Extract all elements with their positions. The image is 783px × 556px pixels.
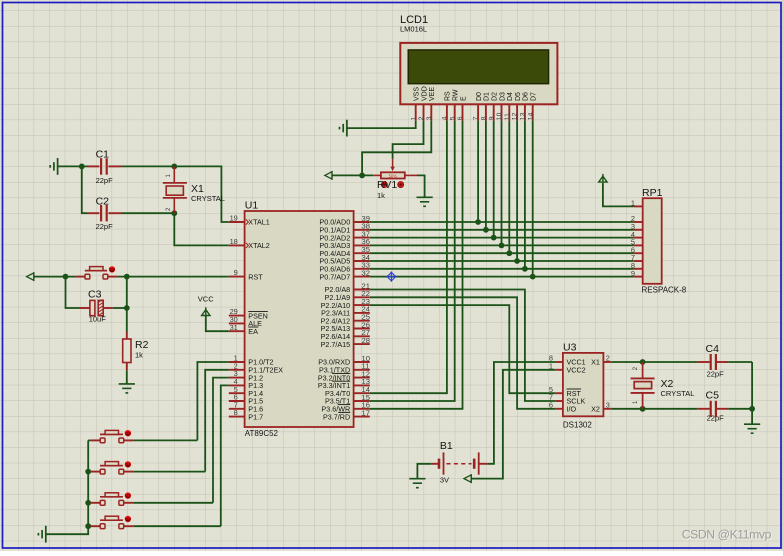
svg-text:D0: D0 [476, 92, 483, 101]
svg-text:RW: RW [453, 89, 460, 101]
svg-text:22pF: 22pF [707, 414, 725, 423]
svg-text:6: 6 [457, 116, 464, 120]
svg-text:C3: C3 [88, 289, 102, 301]
svg-text:14: 14 [527, 112, 534, 120]
svg-text:D6: D6 [523, 92, 530, 101]
svg-text:P0.7/AD7: P0.7/AD7 [319, 272, 350, 281]
svg-text:5: 5 [449, 116, 456, 120]
svg-text:VSS: VSS [414, 87, 421, 101]
svg-text:CSDN @K11mvp: CSDN @K11mvp [682, 528, 772, 542]
svg-text:VEE: VEE [429, 87, 436, 101]
svg-text:U1: U1 [245, 200, 259, 212]
svg-text:C4: C4 [706, 343, 720, 355]
svg-text:D1: D1 [484, 92, 491, 101]
svg-text:12: 12 [512, 112, 519, 120]
svg-text:2: 2 [418, 116, 425, 120]
svg-text:2: 2 [606, 354, 610, 363]
svg-text:11: 11 [504, 113, 511, 120]
svg-text:AT89C52: AT89C52 [245, 429, 279, 438]
svg-text:EA: EA [248, 327, 258, 336]
svg-text:R2: R2 [135, 339, 149, 351]
svg-text:D7: D7 [531, 92, 538, 101]
svg-text:13: 13 [520, 112, 527, 120]
svg-text:1: 1 [549, 361, 553, 370]
svg-text:VDD: VDD [421, 86, 428, 101]
svg-text:6: 6 [549, 400, 553, 409]
svg-text:D4: D4 [507, 92, 514, 101]
svg-text:18: 18 [230, 237, 238, 246]
svg-text:28: 28 [362, 336, 370, 345]
svg-text:22pF: 22pF [96, 176, 114, 185]
svg-text:X2: X2 [591, 405, 600, 414]
svg-text:X1: X1 [591, 358, 600, 367]
svg-text:P1.7: P1.7 [248, 412, 263, 421]
svg-text:RV1: RV1 [377, 179, 397, 191]
svg-text:8: 8 [481, 116, 488, 120]
svg-text:VCC2: VCC2 [567, 366, 586, 375]
svg-text:3: 3 [606, 400, 610, 409]
svg-text:31: 31 [230, 323, 238, 332]
svg-text:E: E [460, 96, 467, 101]
svg-text:7: 7 [473, 116, 480, 120]
svg-text:P3.7/RD: P3.7/RD [323, 412, 350, 421]
svg-text:3: 3 [426, 116, 433, 120]
svg-text:4: 4 [442, 116, 449, 120]
svg-text:D3: D3 [499, 92, 506, 101]
svg-text:I/O: I/O [567, 405, 577, 414]
svg-text:8: 8 [234, 408, 238, 417]
svg-text:10: 10 [496, 112, 503, 120]
svg-text:32: 32 [362, 268, 370, 277]
svg-text:DS1302: DS1302 [563, 421, 592, 430]
svg-text:XTAL2: XTAL2 [248, 241, 269, 250]
svg-text:50%: 50% [389, 173, 398, 178]
svg-text:P2.7/A15: P2.7/A15 [321, 340, 351, 349]
svg-text:RS: RS [445, 91, 452, 101]
svg-text:U3: U3 [563, 342, 577, 354]
svg-text:RST: RST [248, 272, 263, 281]
svg-text:22pF: 22pF [96, 222, 114, 231]
svg-text:3V: 3V [440, 476, 449, 485]
svg-text:10uF: 10uF [89, 315, 107, 324]
svg-text:D5: D5 [515, 92, 522, 101]
svg-text:RESPACK-8: RESPACK-8 [642, 286, 687, 295]
svg-text:1k: 1k [135, 351, 143, 360]
svg-text:CRYSTAL: CRYSTAL [191, 194, 225, 203]
svg-text:9: 9 [234, 268, 238, 277]
svg-text:19: 19 [230, 214, 238, 223]
svg-text:VCC: VCC [198, 295, 214, 304]
svg-text:22pF: 22pF [707, 370, 725, 379]
svg-text:B1: B1 [440, 440, 453, 452]
svg-text:1k: 1k [377, 191, 385, 200]
svg-text:9: 9 [631, 269, 635, 278]
svg-text:CRYSTAL: CRYSTAL [661, 389, 695, 398]
svg-text:XTAL1: XTAL1 [248, 218, 269, 227]
svg-text:9: 9 [488, 116, 495, 120]
svg-text:LM016L: LM016L [400, 25, 427, 34]
svg-text:D2: D2 [492, 92, 499, 101]
svg-text:17: 17 [362, 408, 370, 417]
svg-text:1: 1 [631, 199, 635, 208]
svg-text:C5: C5 [706, 390, 720, 402]
svg-text:RP1: RP1 [642, 187, 663, 199]
svg-text:1: 1 [410, 116, 417, 120]
